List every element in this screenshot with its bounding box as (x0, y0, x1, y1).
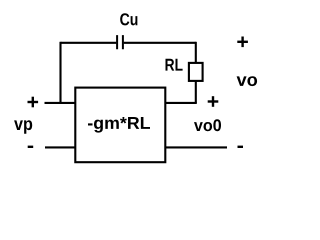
wire resistor RL top lead (195, 42, 197, 63)
capacitor Cu plates (117, 35, 123, 49)
label RL (165, 59, 182, 71)
wire top-left from corner to capacitor Cu left plate (61, 42, 117, 44)
wire vp minus input lead (45, 146, 75, 148)
wire output top from gain block to resistor bottom node (165, 102, 197, 104)
label vo0 (194, 119, 221, 131)
label Cu (120, 13, 137, 25)
label vo (237, 76, 257, 86)
label vp (14, 120, 32, 134)
wire resistor RL bottom lead (195, 81, 197, 103)
label -gm*RL (88, 117, 150, 133)
gain block U1 -gm*RL body (75, 88, 165, 163)
minus sign vp terminal (28, 146, 34, 148)
minus sign vo0 terminal (238, 146, 244, 148)
plus sign vp terminal (28, 97, 39, 108)
wire output bottom from gain block to vo minus node (165, 146, 227, 148)
plus sign vo0 terminal (208, 96, 219, 107)
wire vp plus input lead (45, 102, 76, 104)
wire left vertical drop to vp plus node (59, 42, 61, 103)
wire top-right from capacitor Cu to resistor RL lead corner (124, 42, 196, 44)
resistor RL body (189, 63, 203, 81)
plus sign vo terminal (237, 37, 248, 48)
